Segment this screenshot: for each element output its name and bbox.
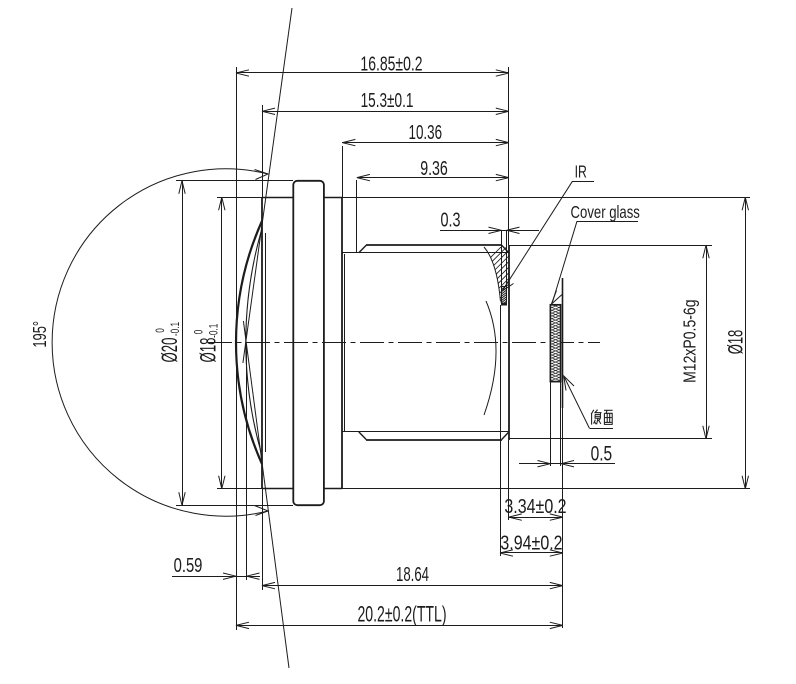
- dim 20.2 TTL: [236, 625, 563, 627]
- svg-text:M12xP0.5-6g: M12xP0.5-6g: [680, 299, 700, 382]
- dim phi20: [182, 181, 184, 505]
- wire M12 ext bottom: [509, 438, 712, 440]
- svg-text:0.5: 0.5: [591, 441, 613, 465]
- label Cover glass leader: [553, 221, 578, 302]
- wire 0.3 ext left / IR front face: [501, 230, 503, 286]
- IR filter plate: [502, 287, 507, 306]
- ring3 back face: [341, 197, 343, 489]
- ring1 bottom edge: [262, 488, 293, 490]
- dim M12 thread: [706, 245, 708, 439]
- chamfer top-left: [359, 245, 366, 253]
- dim 3.34: [509, 517, 563, 519]
- wire phi20 ext top: [176, 180, 293, 182]
- svg-text:195°: 195°: [31, 321, 51, 348]
- image plane line: [562, 278, 564, 408]
- thread root line top: [342, 252, 509, 254]
- svg-text:3.34±0.2: 3.34±0.2: [504, 495, 566, 517]
- chamfer top-right: [502, 245, 509, 253]
- svg-text:Ø20: Ø20: [158, 338, 182, 363]
- svg-text:16.85±0.2: 16.85±0.2: [360, 52, 422, 75]
- chamfer bottom-left: [359, 432, 366, 440]
- svg-text:0: 0: [193, 329, 206, 334]
- barrel recess face + 3.94 extension: [500, 305, 502, 556]
- barrel OD top: [366, 244, 502, 246]
- svg-text:3.94±0.2: 3.94±0.2: [500, 532, 562, 554]
- cover glass: [550, 305, 560, 382]
- 195 degree field-of-view arc: [52, 169, 268, 516]
- wire FOV ray upper (195 deg): [243, 8, 292, 363]
- lens dome outer surface: [236, 221, 262, 464]
- mount cross-section hatch boundary curve: [484, 247, 501, 302]
- svg-text:18.64: 18.64: [396, 563, 429, 585]
- wire M12 ext top: [509, 245, 712, 247]
- mount cross-section hatching: [436, 236, 663, 312]
- wire phi20 ext bottom: [176, 505, 293, 507]
- front ring front face: [261, 197, 263, 489]
- label IR leader: [503, 181, 572, 289]
- lock ring phi20: [293, 181, 324, 505]
- wire 0.59 ext right (ray crossing): [246, 345, 248, 580]
- svg-text:-0.1: -0.1: [170, 322, 183, 337]
- svg-text:-0.1: -0.1: [208, 323, 221, 338]
- dim phi18 right: [745, 197, 747, 489]
- svg-text:15.3±0.1: 15.3±0.1: [361, 89, 414, 111]
- wire phi18 left ext top: [217, 197, 262, 199]
- dim 9.36: [357, 177, 509, 179]
- label image plane leader: [564, 377, 590, 429]
- svg-text:20.2±0.2(TTL): 20.2±0.2(TTL): [357, 601, 446, 626]
- barrel groove face: [344, 254, 346, 432]
- svg-text:0: 0: [155, 328, 168, 333]
- rear lens element surface arc: [484, 301, 496, 415]
- svg-text:Ø18: Ø18: [723, 330, 747, 355]
- wire image plane extension down: [562, 408, 564, 628]
- wire 10.36 extension: [342, 146, 344, 197]
- dim 18.64: [262, 585, 563, 587]
- wire 0.5 ext right: [560, 382, 562, 466]
- svg-text:Ø18: Ø18: [196, 338, 220, 363]
- lens second element front face: [265, 233, 267, 452]
- dim 10.36: [342, 142, 509, 144]
- wire right face ext upper: [508, 67, 510, 245]
- wire 0.3 ext right / IR back face: [506, 230, 508, 286]
- wire ext line x=262 lower: [262, 489, 264, 590]
- wire optical axis centerline: [208, 342, 600, 344]
- wire 0.5 ext left: [550, 382, 552, 466]
- chamfer bottom-right: [502, 432, 509, 440]
- wire 9.36 extension: [356, 180, 358, 253]
- svg-text:0.3: 0.3: [441, 208, 461, 231]
- barrel OD bottom: [366, 439, 502, 441]
- svg-text:Cover glass: Cover glass: [571, 203, 640, 222]
- wire ext line front vertex x=236: [236, 67, 238, 630]
- ring3 bottom edge + phi18 right ext: [324, 488, 750, 490]
- wire FOV ray lower (195 deg): [243, 321, 289, 668]
- lens dome inner surface: [246, 232, 261, 452]
- dim 0.3: [440, 230, 539, 232]
- IR filter bottom edge: [501, 303, 507, 306]
- wire right face ext lower: [508, 440, 510, 520]
- ring3 top edge thick part: [324, 197, 342, 199]
- dim 0.5: [519, 463, 615, 465]
- ring3 bottom edge thick part: [324, 488, 342, 490]
- ring3 top edge + phi18 right ext: [324, 197, 750, 199]
- dim 15.3: [262, 111, 509, 113]
- label image plane (像面): [591, 410, 612, 425]
- dim phi18 left: [221, 197, 223, 489]
- ring1 top edge: [262, 197, 293, 199]
- wire ext line x=262 upper: [262, 105, 264, 197]
- svg-text:IR: IR: [575, 162, 587, 182]
- wire phi18 left ext bottom: [217, 488, 262, 490]
- dim 3.94: [500, 552, 563, 554]
- svg-text:10.36: 10.36: [409, 121, 443, 143]
- thread root line bottom: [342, 431, 509, 433]
- dim 0.59: [172, 576, 260, 578]
- svg-text:9.36: 9.36: [420, 157, 448, 180]
- barrel right face: [508, 245, 510, 440]
- dim 16.85: [236, 72, 509, 74]
- svg-text:0.59: 0.59: [174, 554, 203, 577]
